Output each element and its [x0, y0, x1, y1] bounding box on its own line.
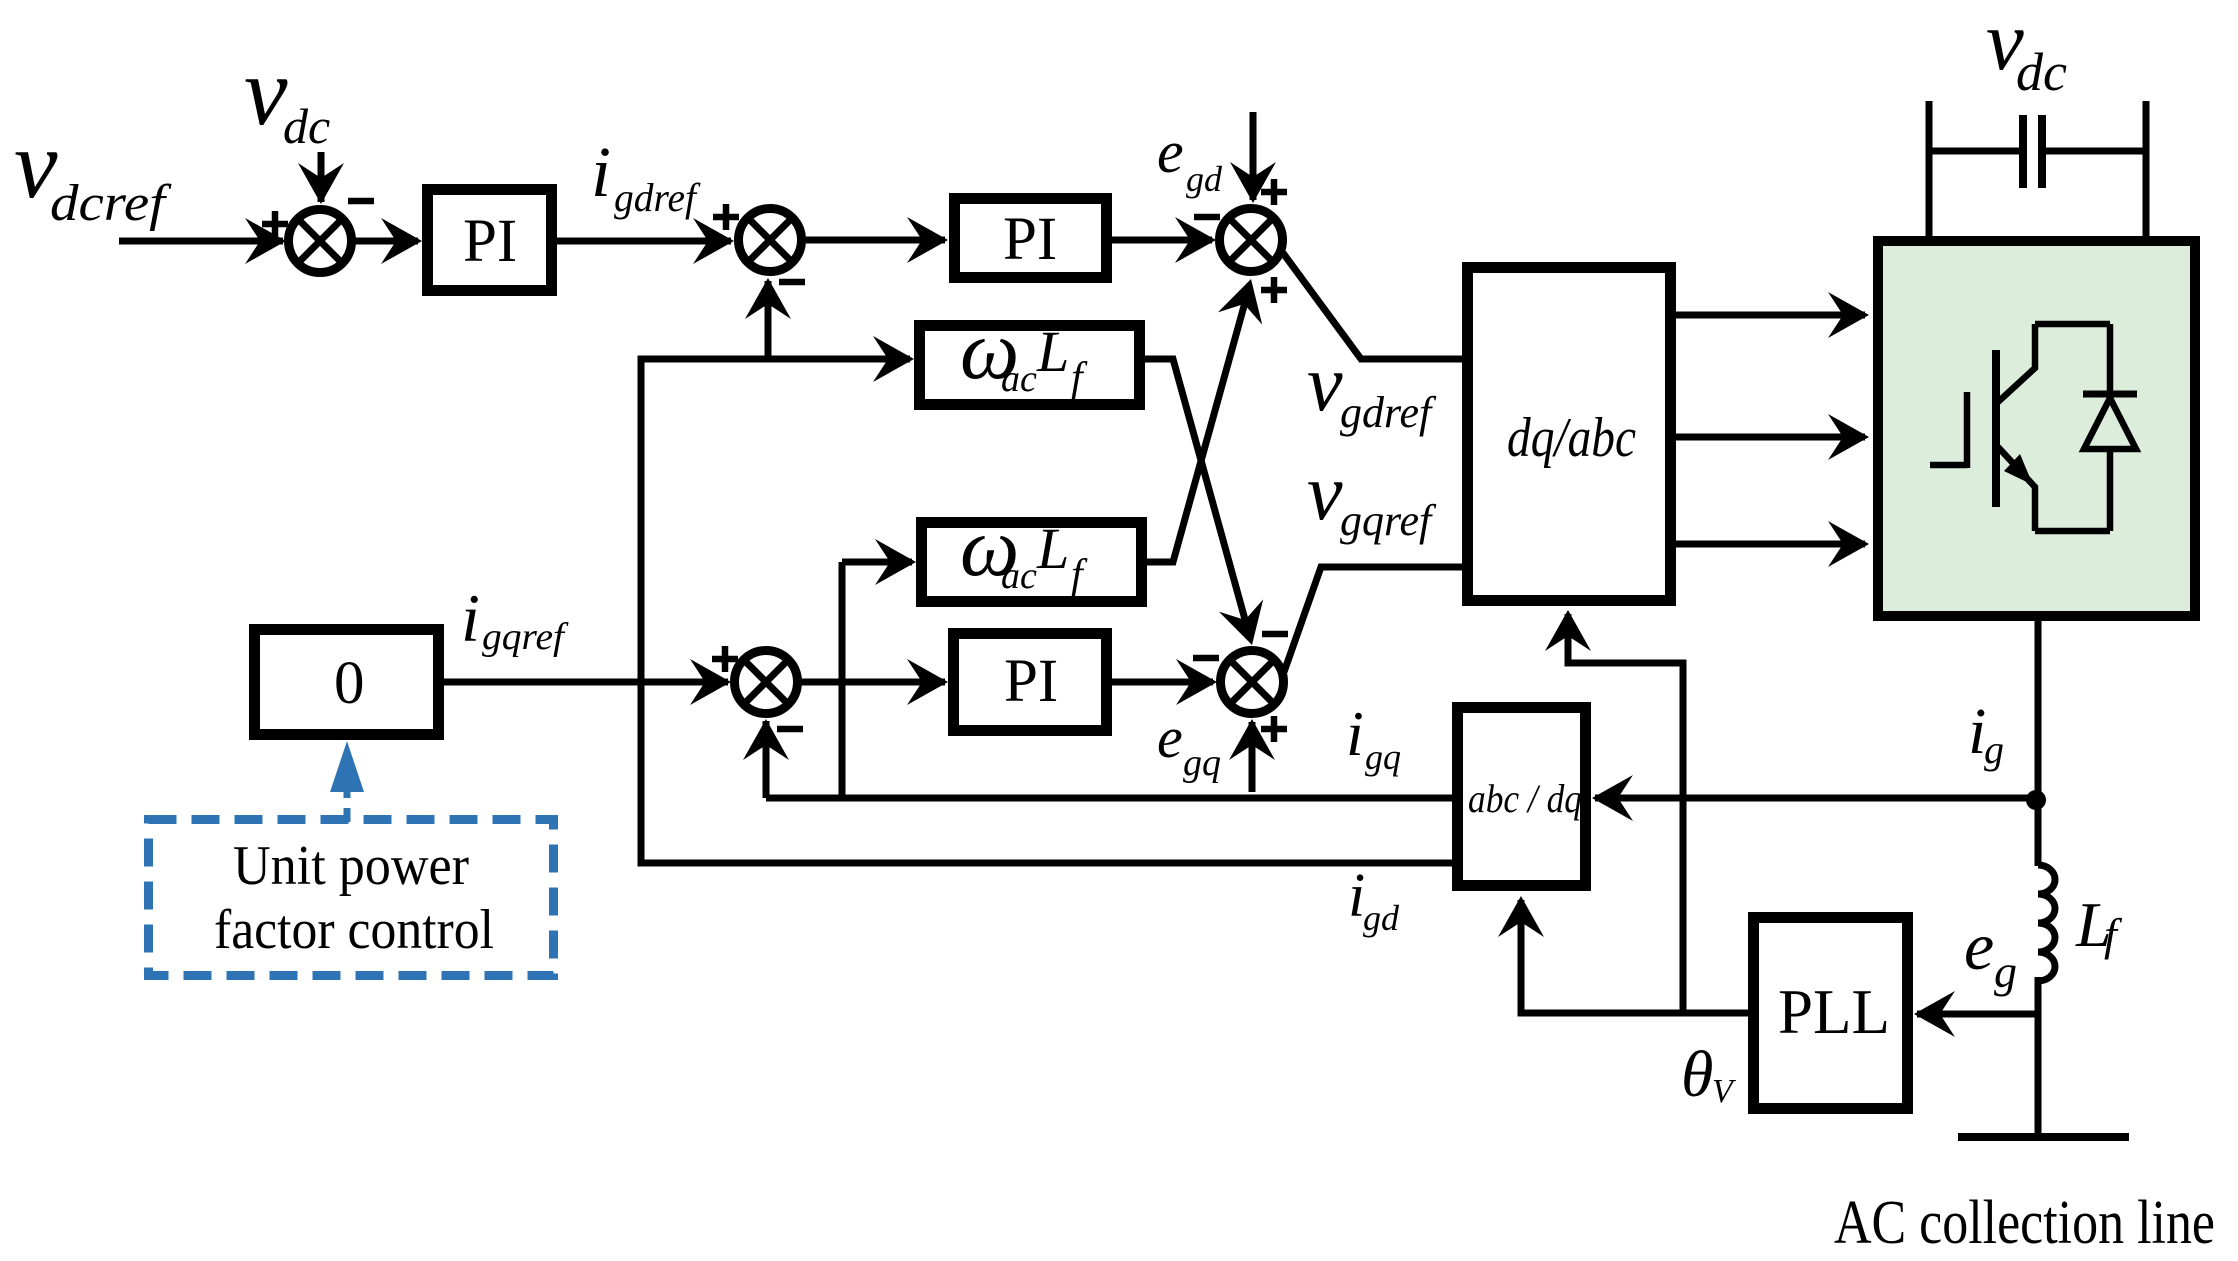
- svg-text:f: f: [2104, 909, 2123, 960]
- svg-text:gq: gq: [1365, 737, 1401, 777]
- svg-text:V: V: [1712, 1073, 1737, 1110]
- label v_dc (input to S1): [244, 38, 330, 154]
- svg-text:PLL: PLL: [1778, 977, 1890, 1047]
- summing junction S3: [1220, 209, 1283, 272]
- wire feedback up into S5 (minus) + i_gq line: [763, 721, 770, 798]
- label v_dcref: [14, 111, 172, 232]
- svg-text:0: 0: [334, 650, 365, 717]
- diode D1 inside converter: [2083, 324, 2137, 531]
- wire dq/abc output b: [1676, 434, 1865, 441]
- node i_g junction dot: [2026, 790, 2046, 810]
- wire dq/abc output a: [1676, 312, 1865, 319]
- svg-text:PI: PI: [1004, 648, 1058, 715]
- label v_dc (dc link, right): [1986, 0, 2067, 102]
- wire wL1 output diagonal down to S4: [1145, 359, 1249, 634]
- sign minus at S5 bottom: [777, 726, 803, 733]
- block wL1 (omega_ac Lf): [920, 326, 1140, 405]
- label i_gq: [1346, 698, 1401, 777]
- sign plus at S3 bottom: [1261, 277, 1287, 303]
- wire i_gq horizontal: [766, 795, 1455, 802]
- block dq/abc: [1468, 268, 1671, 601]
- summing junction S5: [735, 651, 798, 714]
- label i_gqref: [461, 580, 569, 658]
- wire theta_V branch to dq/abc: [1568, 614, 1683, 1013]
- label e_gq: [1157, 705, 1221, 784]
- inductor L_f coil: [2038, 865, 2055, 981]
- svg-text:i: i: [591, 132, 611, 212]
- sign plus at S5 left: [712, 646, 738, 672]
- svg-text:g: g: [1994, 946, 2017, 997]
- label i_g: [1968, 695, 2004, 772]
- svg-text:abc / dq: abc / dq: [1468, 776, 1582, 821]
- svg-text:ac: ac: [1001, 358, 1037, 400]
- summing junction S2: [739, 209, 802, 272]
- svg-text:gd: gd: [1186, 159, 1223, 199]
- svg-text:e: e: [1964, 908, 1994, 984]
- summing junction S4: [1221, 651, 1284, 714]
- label theta_V: [1681, 1038, 1737, 1111]
- wire S2 to PI2: [806, 237, 945, 244]
- converter block U1 (green): [1878, 241, 2195, 616]
- svg-text:i: i: [461, 580, 480, 656]
- wire feedback up into S2 (minus): [765, 281, 772, 359]
- sign minus at S1 top: [348, 198, 374, 205]
- wire PI1 to S2 (i_gdref): [557, 238, 731, 245]
- svg-text:dq/abc: dq/abc: [1507, 407, 1636, 469]
- svg-text:e: e: [1157, 705, 1183, 770]
- wire i_gd vertical riser: [638, 356, 645, 867]
- svg-text:v: v: [1307, 340, 1343, 428]
- sign minus at S3 left: [1194, 214, 1220, 221]
- svg-text:ac: ac: [1001, 555, 1037, 597]
- label v_gqref: [1307, 449, 1437, 545]
- sign plus at S2 left: [713, 204, 739, 230]
- PI controller PI1: [428, 190, 552, 291]
- wire i_g into abc/dq: [1595, 795, 2034, 802]
- PI controller PI2: [955, 199, 1107, 278]
- svg-text:dc: dc: [283, 98, 330, 154]
- svg-text:gdref: gdref: [614, 175, 701, 220]
- label v_gdref: [1307, 340, 1437, 437]
- svg-text:PI: PI: [1003, 206, 1057, 273]
- svg-text:dc: dc: [2016, 42, 2067, 102]
- wire dq/abc output c: [1676, 541, 1865, 548]
- label i_gdref: [591, 132, 701, 220]
- wire v_dc down into S1: [318, 152, 325, 202]
- wire i_gd feed to wL1: [641, 356, 910, 363]
- wire S5 to PI3: [801, 679, 945, 686]
- label e_gd: [1157, 119, 1223, 199]
- svg-text:L: L: [1036, 319, 1069, 384]
- block ZERO reference: [255, 630, 439, 735]
- wire vdcref input: [119, 238, 283, 245]
- svg-text:PI: PI: [463, 208, 517, 275]
- wire theta_V : PLL output to abc/dq: [1521, 900, 1749, 1013]
- label i_gd: [1348, 862, 1400, 938]
- wire PI2 to S3: [1112, 237, 1212, 244]
- wire converter output down: [2035, 621, 2042, 866]
- capacitor C1 (dc link): [1929, 101, 2146, 240]
- block wL2 (omega_ac Lf): [922, 523, 1142, 602]
- blue arrow into zero block: [344, 786, 351, 822]
- svg-text:v: v: [1307, 449, 1343, 537]
- wire e_gd down into S3: [1250, 112, 1257, 200]
- block abc/dq: [1458, 708, 1586, 886]
- svg-text:gq: gq: [1183, 742, 1221, 784]
- sign minus at S4 top: [1262, 631, 1288, 638]
- wire S1 to PI1: [355, 238, 418, 245]
- sign plus at S3 top: [1261, 179, 1287, 205]
- block PLL: [1754, 918, 1908, 1109]
- wire PI3 to S4: [1112, 679, 1213, 686]
- svg-text:gqref: gqref: [1340, 496, 1437, 545]
- svg-text:gqref: gqref: [482, 616, 569, 658]
- IGBT Q1 inside converter: [1930, 324, 2110, 531]
- svg-text:Unit power: Unit power: [233, 835, 469, 897]
- PI controller PI3: [954, 634, 1107, 731]
- blue dashed box: unit power factor control: [149, 820, 554, 976]
- svg-text:gdref: gdref: [1340, 388, 1437, 437]
- wire e_g into PLL: [1917, 1011, 2038, 1018]
- svg-text:factor control: factor control: [214, 899, 494, 961]
- sign plus at S1 left: [262, 211, 288, 237]
- wire e_gq up into S4: [1249, 722, 1256, 792]
- svg-text:L: L: [1036, 516, 1069, 581]
- wire inductor to ground: [2035, 977, 2042, 1137]
- svg-text:θ: θ: [1681, 1038, 1713, 1111]
- svg-text:g: g: [1984, 727, 2004, 772]
- wire wL2 output diagonal up to S3: [1147, 288, 1249, 562]
- svg-text:dcref: dcref: [50, 175, 172, 232]
- label L_f (filter inductor value): [2075, 889, 2123, 960]
- svg-text:v: v: [244, 38, 288, 146]
- summing junction S1: [289, 210, 352, 273]
- ground symbol: [1958, 1133, 2129, 1141]
- wire i_gd horizontal: [641, 860, 1455, 867]
- svg-text:gd: gd: [1363, 898, 1400, 938]
- wire v_gdref : S3 to dq/abc: [1283, 253, 1464, 359]
- svg-text:i: i: [1346, 698, 1364, 769]
- svg-text:AC collection line: AC collection line: [1834, 1189, 2215, 1257]
- sign plus at S4 bottom: [1261, 716, 1287, 742]
- sign minus at S4 left: [1193, 655, 1219, 662]
- wire v_gqref : S4 to dq/abc: [1284, 567, 1464, 672]
- svg-text:e: e: [1157, 119, 1184, 185]
- sign minus at S2 bottom: [779, 279, 805, 286]
- wire i_gqref : zero block to S5: [444, 679, 728, 686]
- label e_g: [1964, 908, 2017, 997]
- wire wL2 input from i_gq line: [839, 562, 846, 798]
